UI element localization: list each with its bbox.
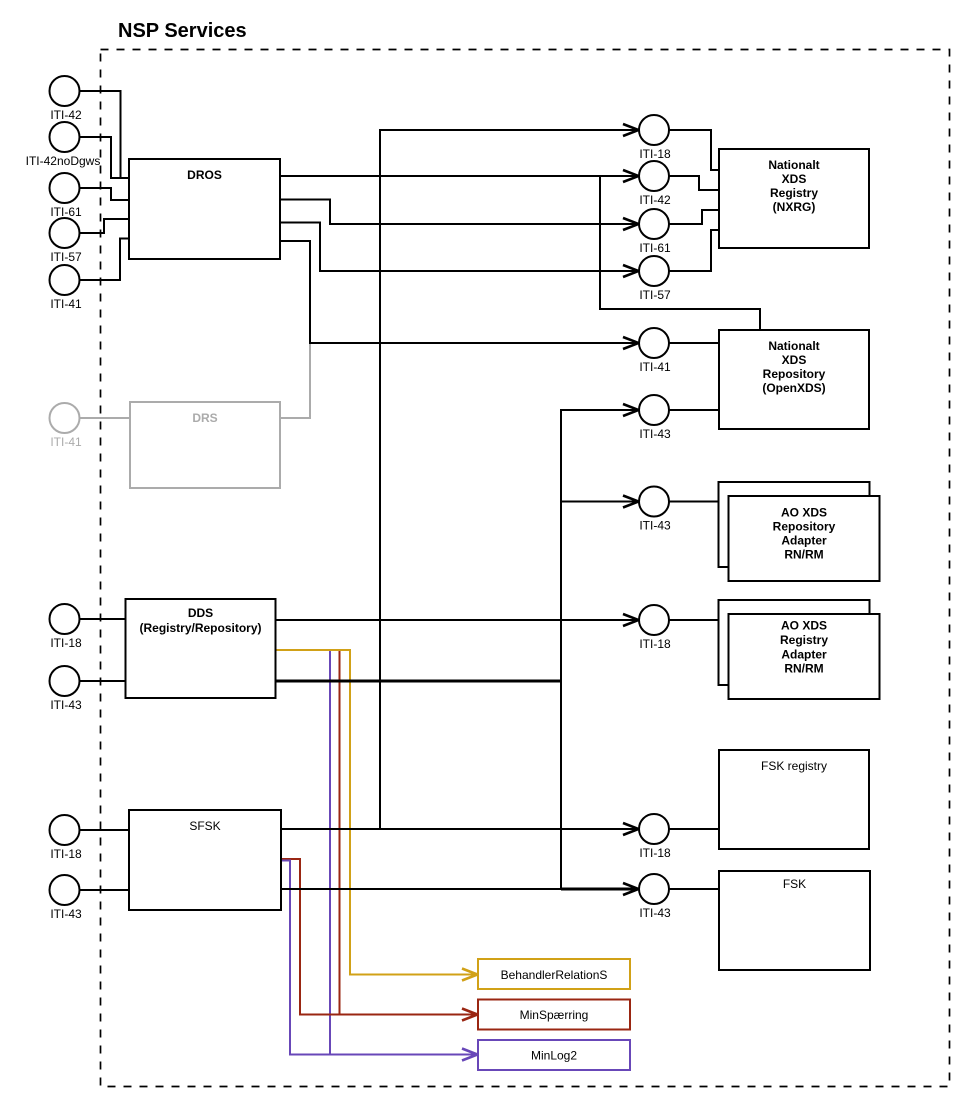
wire ITI-42 circle to NXRG — [669, 176, 719, 190]
wire ITI-57 circle to NXRG — [669, 230, 719, 271]
wire ITI-18 circle to AO Registry adapter — [669, 619, 719, 621]
wire ITI-42 circle to DROS — [80, 91, 130, 178]
svg-text:MinSpærring: MinSpærring — [520, 1008, 589, 1022]
box FSK — [719, 871, 870, 970]
wire gray ITI-41 circle to DRS — [80, 417, 130, 419]
box MinLog2 — [478, 1040, 630, 1070]
wire SFSK to ITI-43 FSK circle — [281, 888, 638, 890]
wire ITI-18 circle to NXRG — [669, 130, 719, 170]
port circle ITI-41 mid — [639, 328, 669, 358]
svg-text:DROS: DROS — [187, 168, 222, 182]
svg-text:(Registry/Repository): (Registry/Repository) — [139, 621, 261, 635]
arrowhead gold — [462, 969, 478, 981]
svg-text:Adapter: Adapter — [781, 534, 827, 548]
arrowhead into ITI-41 — [623, 337, 639, 349]
box FSK registry — [719, 750, 869, 849]
wire ITI-43 circle to AO Repository adapter — [669, 501, 719, 503]
wire DROS to ITI-41 mid circle — [280, 241, 638, 343]
box DROS — [129, 159, 280, 259]
svg-text:DRS: DRS — [192, 411, 217, 425]
arrowhead into ITI-42 — [623, 170, 639, 182]
svg-text:(NXRG): (NXRG) — [773, 200, 816, 214]
box BehandlerRelationS — [478, 959, 630, 989]
port circle ITI-18 DDS — [50, 604, 80, 634]
svg-text:ITI-41: ITI-41 — [50, 297, 82, 311]
svg-text:ITI-18: ITI-18 — [639, 147, 671, 161]
port circle ITI-43 OpenXDS — [639, 395, 669, 425]
svg-text:ITI-41: ITI-41 — [50, 435, 82, 449]
svg-text:AO XDS: AO XDS — [781, 619, 827, 633]
arrowhead into ITI-57 — [623, 265, 639, 277]
svg-text:FSK registry: FSK registry — [761, 759, 827, 773]
svg-text:FSK: FSK — [783, 877, 806, 891]
wire ITI-18 circle to SFSK — [80, 829, 130, 831]
svg-text:ITI-57: ITI-57 — [50, 250, 82, 264]
port circle ITI-18 FSKreg — [639, 814, 669, 844]
port circle ITI-41 left — [50, 265, 80, 295]
svg-text:ITI-43: ITI-43 — [639, 427, 671, 441]
wire ITI-43 trunk vertical x561 — [561, 410, 638, 889]
box AO XDS Repository Adapter (back) — [719, 482, 870, 567]
svg-text:ITI-18: ITI-18 — [639, 846, 671, 860]
svg-text:SFSK: SFSK — [189, 819, 220, 833]
wire DROS to ITI-42 mid circle — [280, 175, 638, 177]
wire purple DDS to MinLog2 — [276, 650, 478, 1055]
svg-text:RN/RM: RN/RM — [784, 662, 823, 676]
wire DROS to ITI-61 mid circle — [280, 200, 638, 225]
svg-text:NSP Services: NSP Services — [118, 20, 247, 42]
svg-text:Adapter: Adapter — [781, 648, 827, 662]
box AO XDS Registry Adapter (front) — [729, 614, 880, 699]
port circle ITI-43 SFSK — [50, 875, 80, 905]
svg-text:ITI-61: ITI-61 — [639, 241, 671, 255]
port circle ITI-43 DDS — [50, 666, 80, 696]
arrowhead into ITI-61 — [623, 218, 639, 230]
wire DROS to ITI-57 mid circle — [280, 223, 638, 272]
svg-text:ITI-43: ITI-43 — [639, 906, 671, 920]
svg-text:ITI-42: ITI-42 — [639, 193, 671, 207]
svg-text:ITI-43: ITI-43 — [639, 519, 671, 533]
arrowhead red — [462, 1009, 478, 1021]
svg-text:ITI-61: ITI-61 — [50, 205, 82, 219]
wire ITI-41 circle to OpenXDS — [669, 342, 719, 344]
port circle ITI-42noDgws left — [50, 122, 80, 152]
svg-text:BehandlerRelationS: BehandlerRelationS — [501, 968, 608, 982]
svg-text:ITI-41: ITI-41 — [639, 360, 671, 374]
port circle ITI-18 AO — [639, 605, 669, 635]
box Nationalt XDS Repository (OpenXDS) — [719, 330, 869, 429]
wire ITI-43 circle to SFSK — [80, 889, 130, 891]
arrowhead into ITI-43 OpenXDS — [623, 404, 639, 416]
wire ITI-43 circle to DDS — [80, 680, 126, 682]
port circle ITI-42 mid — [639, 161, 669, 191]
wire ITI-18 circle to DDS — [80, 618, 126, 620]
wire ITI-42noDgws circle to DROS — [80, 137, 130, 178]
wire trunk branch to ITI-43 FSK circle — [561, 888, 638, 891]
wire purple SFSK to MinLog2 — [280, 861, 332, 1055]
port circle ITI-57 mid — [639, 256, 669, 286]
port circle ITI-57 left — [50, 218, 80, 248]
wire ITI-61 circle to NXRG — [669, 210, 719, 224]
arrowhead into ITI-43 FSK — [623, 883, 639, 895]
port circle ITI-18 SFSK — [50, 815, 80, 845]
wire gray DRS to ITI-41 junction — [280, 344, 310, 418]
wire trunk branch to ITI-43 AO circle — [561, 501, 638, 503]
wire ITI-43 circle to OpenXDS — [669, 409, 719, 411]
svg-text:ITI-18: ITI-18 — [50, 847, 82, 861]
wire ITI-41 circle to DROS — [80, 239, 130, 281]
box AO XDS Repository Adapter (front) — [729, 496, 880, 581]
svg-text:Registry: Registry — [770, 186, 818, 200]
port circle ITI-41 gray — [50, 403, 80, 433]
wire gold DDS to BehandlerRelationS — [276, 650, 478, 975]
svg-text:ITI-42noDgws: ITI-42noDgws — [26, 154, 101, 168]
wire ITI-57 circle to DROS — [80, 219, 130, 233]
svg-text:MinLog2: MinLog2 — [531, 1049, 577, 1063]
svg-text:ITI-57: ITI-57 — [639, 288, 671, 302]
port circle ITI-61 left — [50, 173, 80, 203]
svg-text:Nationalt: Nationalt — [768, 158, 819, 172]
svg-text:ITI-43: ITI-43 — [50, 698, 82, 712]
svg-text:ITI-42: ITI-42 — [50, 108, 82, 122]
svg-text:ITI-18: ITI-18 — [639, 637, 671, 651]
arrowhead purple — [462, 1049, 478, 1061]
svg-text:ITI-18: ITI-18 — [50, 636, 82, 650]
wire branch ITI-42 line to OpenXDS top — [600, 176, 760, 330]
port circle ITI-43 FSK — [639, 874, 669, 904]
box Nationalt XDS Registry (NXRG) — [719, 149, 869, 248]
port circle ITI-18 mid top — [639, 115, 669, 145]
box SFSK — [129, 810, 281, 910]
wire red DDS to MinSpaerring — [276, 650, 340, 1015]
arrowhead into ITI-18 FSKreg — [623, 823, 639, 835]
arrowhead into ITI-18 AO — [623, 614, 639, 626]
svg-text:DDS: DDS — [188, 606, 213, 620]
svg-text:AO XDS: AO XDS — [781, 506, 827, 520]
wire ITI-18 circle to FSK registry — [669, 828, 719, 830]
box DDS — [126, 599, 276, 698]
svg-text:Repository: Repository — [763, 367, 826, 381]
svg-text:Nationalt: Nationalt — [768, 339, 819, 353]
svg-text:XDS: XDS — [782, 353, 807, 367]
svg-text:ITI-43: ITI-43 — [50, 907, 82, 921]
port circle ITI-61 mid — [639, 209, 669, 239]
wire red SFSK to MinSpaerring — [280, 859, 477, 1015]
wire ITI-61 circle to DROS — [80, 188, 130, 200]
svg-text:Repository: Repository — [773, 520, 836, 534]
wire ITI-43 circle to FSK — [669, 888, 719, 890]
wire SFSK to ITI-18 top circle (vertical x380) — [380, 130, 638, 829]
arrowhead into ITI-18 top — [623, 124, 639, 136]
svg-text:(OpenXDS): (OpenXDS) — [762, 381, 825, 395]
wire DDS to ITI-18 AO circle — [276, 619, 638, 621]
arrowhead into ITI-43 AO — [623, 496, 639, 508]
wire DDS ITI-43 trunk horizontal — [276, 680, 562, 683]
wire SFSK to ITI-18 FSK-registry circle — [281, 828, 638, 830]
box DRS (gray) — [130, 402, 280, 488]
svg-text:XDS: XDS — [782, 172, 807, 186]
port circle ITI-43 AO — [639, 487, 669, 517]
box AO XDS Registry Adapter (back) — [719, 600, 870, 685]
box MinSpaerring — [478, 1000, 630, 1030]
svg-text:Registry: Registry — [780, 633, 828, 647]
svg-text:RN/RM: RN/RM — [784, 548, 823, 562]
port circle ITI-42 left — [50, 76, 80, 106]
